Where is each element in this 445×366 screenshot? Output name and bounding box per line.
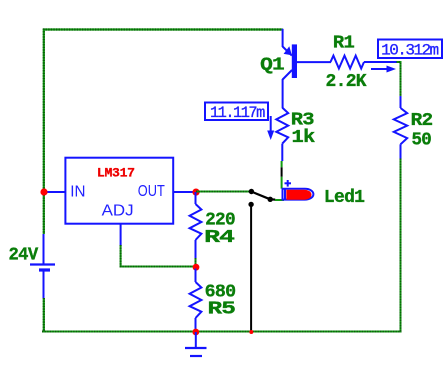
svg-text:Q1: Q1 [260, 55, 285, 75]
battery B1 24V [30, 234, 55, 298]
resistor R1 [331, 56, 397, 69]
svg-text:11.117m: 11.117m [210, 104, 265, 122]
svg-text:2.2K: 2.2K [326, 72, 367, 92]
svg-text:R1: R1 [333, 34, 355, 54]
wire top rail [43, 28, 283, 30]
ammeter box 10.312m [378, 40, 442, 60]
svg-text:10.312m: 10.312m [381, 42, 438, 60]
resistor R2 [394, 96, 407, 159]
node ground junction [192, 329, 199, 336]
wire R3 to LED (green-black-green) [281, 161, 283, 189]
svg-text:Led1: Led1 [324, 188, 365, 208]
wire left rail lower [43, 298, 45, 332]
arrow current down [267, 116, 274, 140]
wire OUT to switch [196, 191, 250, 193]
wire left rail upper [43, 29, 45, 235]
ammeter box 11.117m [205, 103, 268, 123]
wire ADJ [121, 224, 195, 267]
node OUT junction [192, 189, 199, 196]
svg-text:R4: R4 [204, 228, 235, 248]
wire switch to LED [275, 199, 284, 201]
arrow current right [371, 66, 396, 73]
wire bottom rail [42, 331, 402, 333]
wire R4 to ADJ node [195, 258, 197, 267]
wire pin IN [43, 191, 65, 193]
svg-text:50: 50 [412, 131, 432, 151]
wire right rail upper (green) [396, 62, 401, 97]
svg-text:OUT: OUT [138, 183, 165, 200]
resistor R3 [276, 108, 288, 161]
svg-text:R2: R2 [411, 111, 433, 131]
node ADJ junction [193, 264, 200, 271]
wire switch throw down [250, 204, 252, 330]
svg-text:24V: 24V [9, 245, 39, 265]
resistor R5 [190, 269, 202, 332]
wire collector [282, 79, 284, 108]
LED Led1 [283, 188, 314, 200]
svg-text:IN: IN [70, 184, 85, 201]
svg-text:LM317: LM317 [97, 166, 135, 181]
switch S1 [248, 189, 275, 207]
ground [185, 332, 207, 356]
svg-text:ADJ: ADJ [102, 202, 134, 219]
resistor R4 [190, 192, 202, 258]
svg-text:1k: 1k [292, 128, 316, 148]
node IN junction [40, 188, 47, 195]
node switch bottom junction [249, 330, 253, 334]
polarity mark + [285, 180, 292, 187]
svg-text:R5: R5 [208, 300, 235, 320]
wire pin OUT [173, 191, 196, 193]
transistor Q1 [283, 29, 331, 80]
wire right rail lower (green) [400, 159, 402, 332]
regulator U1 LM317 [65, 158, 173, 224]
